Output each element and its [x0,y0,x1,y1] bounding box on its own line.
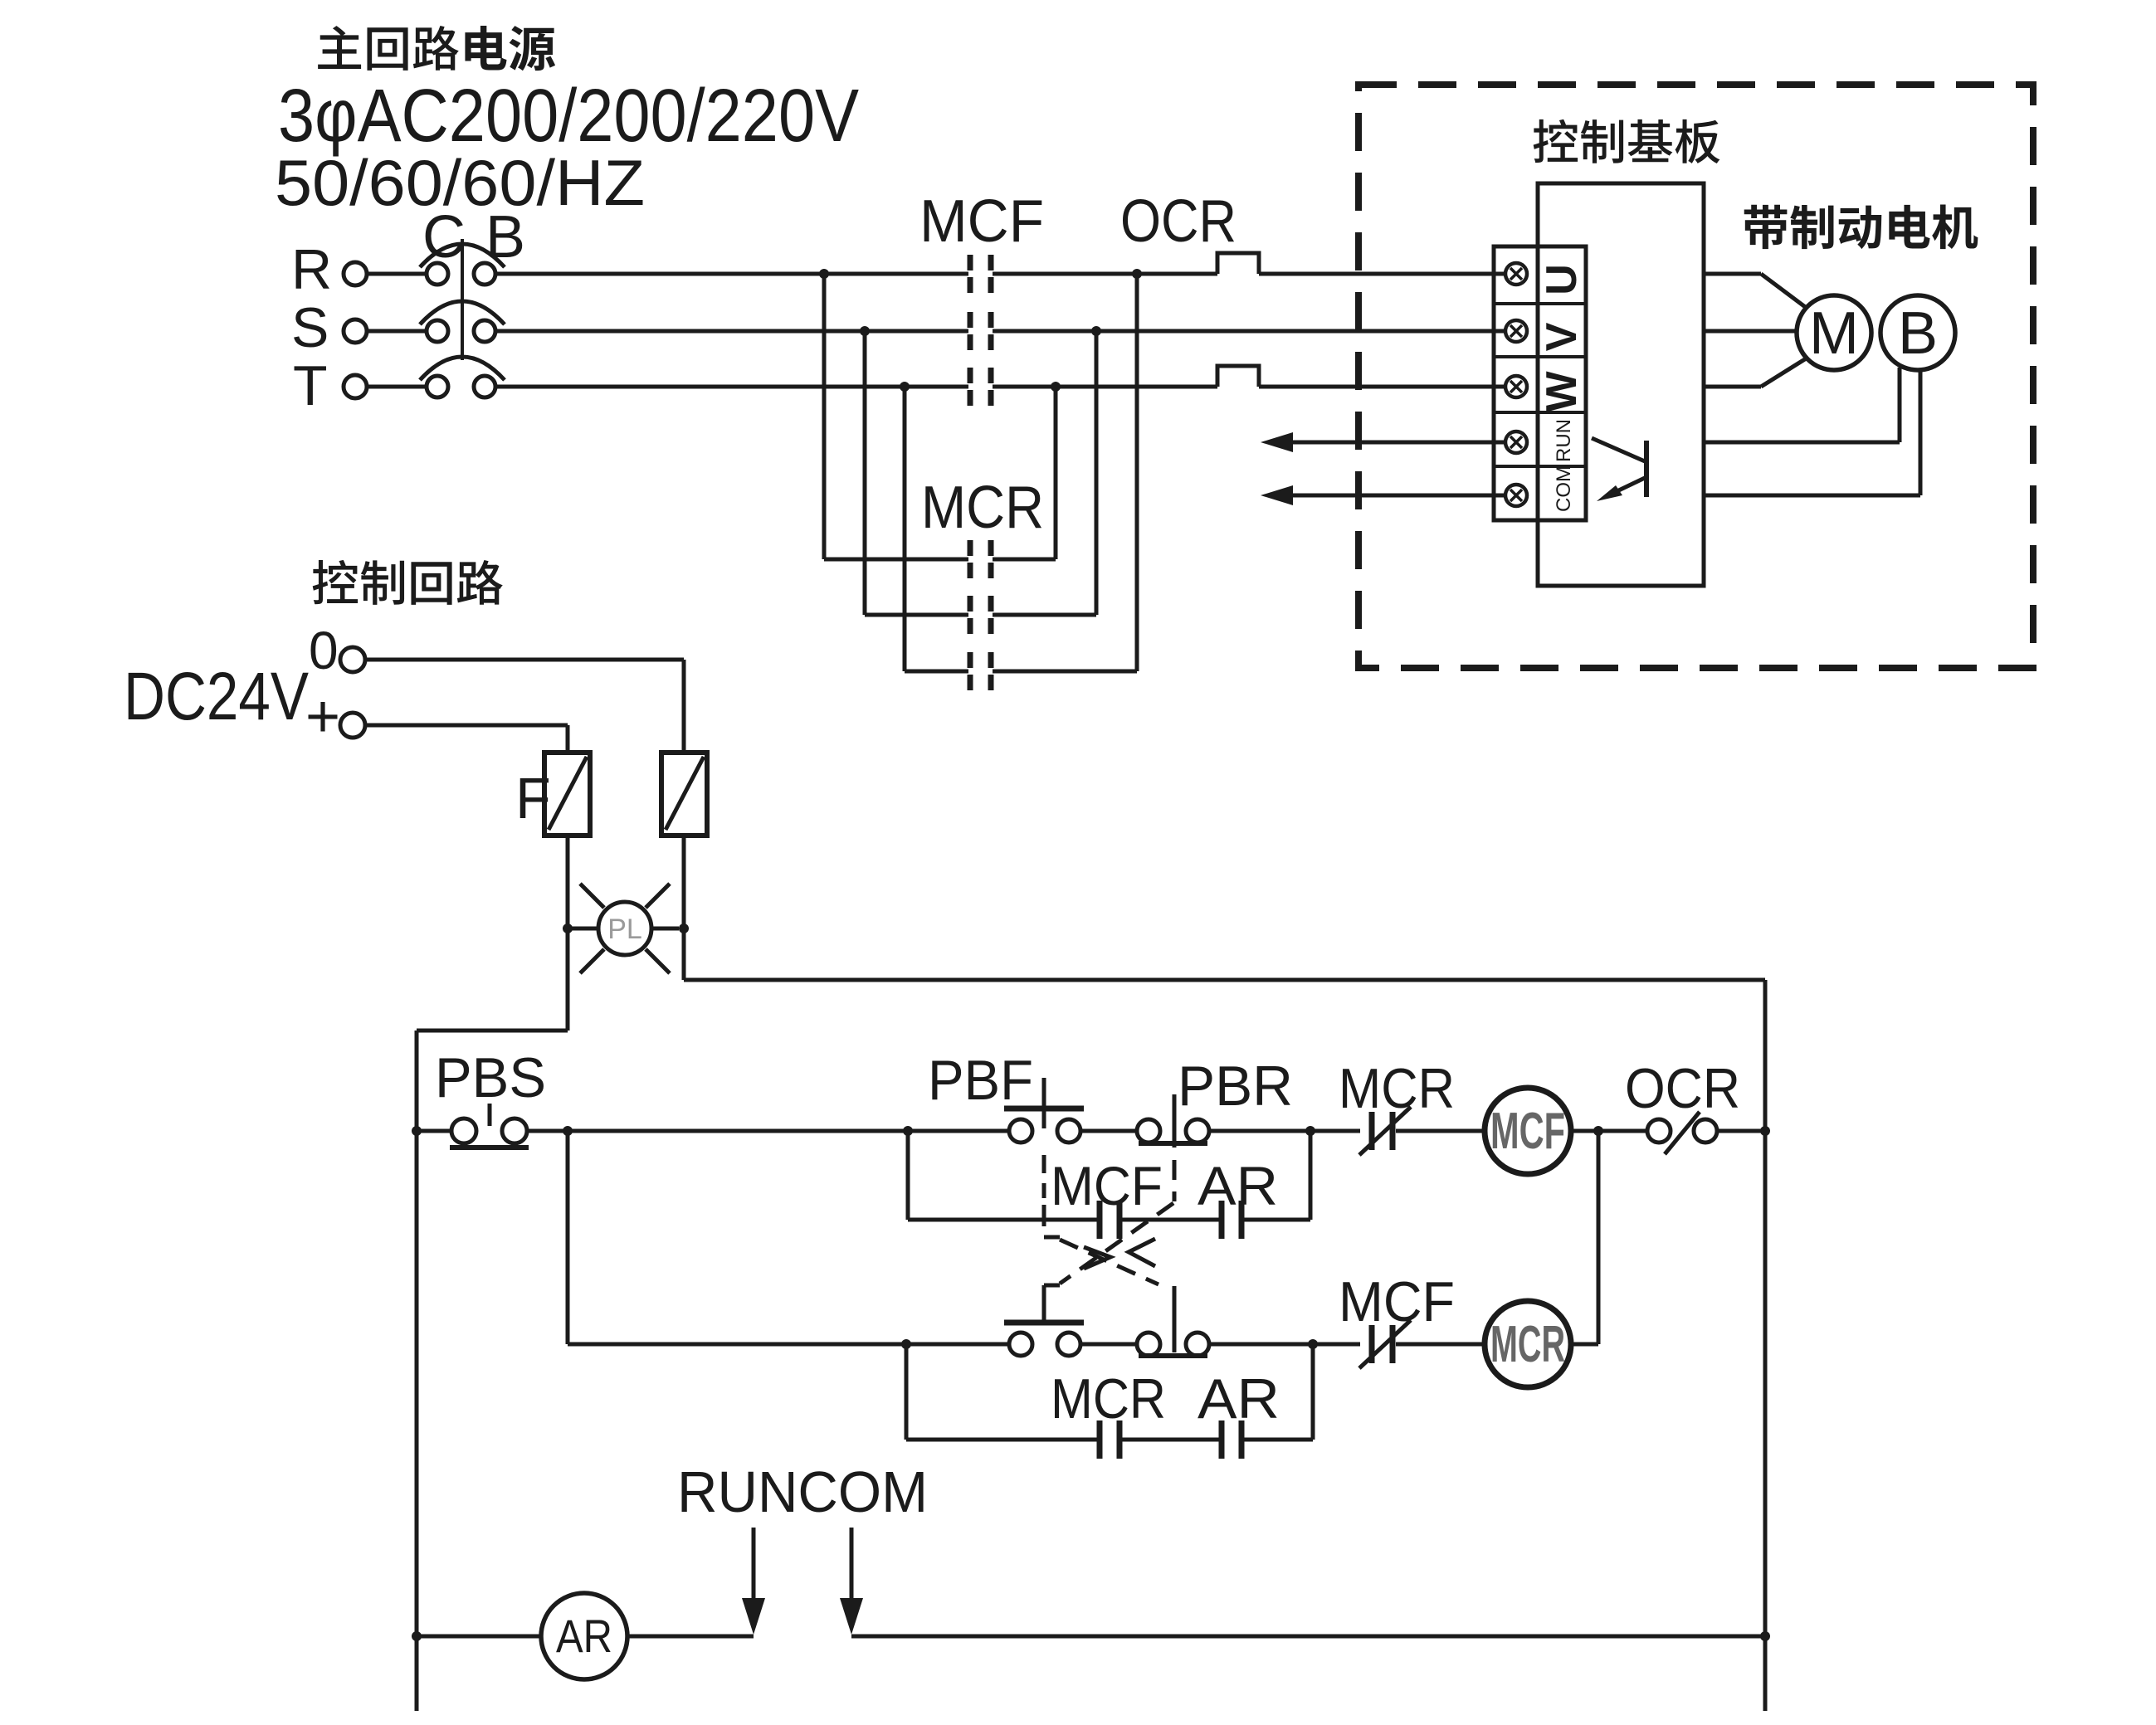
wire 0 to right fuse [365,660,684,753]
wire brake 1 [1704,368,1900,442]
terminal 0 [340,647,365,672]
wire bypass2 rise [1311,1344,1315,1440]
wire MCR rung 2 [865,613,1096,617]
wire COM signal [1292,494,1505,498]
pin label U [1538,264,1586,295]
svg-text:PL: PL [607,914,642,945]
svg-text:MCR: MCR [1339,1057,1455,1120]
wire PL to left rail [417,928,568,1031]
label F (fuse) [515,766,551,831]
wire top feed line [684,978,1765,982]
wire MCR rung 3 [905,670,1137,674]
label AR (contact rung1b) [1198,1155,1278,1216]
wire bypass1 segment C [1244,1218,1310,1222]
label main-circuit power title 主回路电源 [318,26,555,71]
wire rung1 segment E [1571,1129,1647,1133]
wire rung1 segment B [1080,1129,1137,1133]
label S phase [291,296,329,359]
pushbutton PBF (NO) [1004,1078,1084,1198]
contactor MCF main contact S [970,312,991,350]
junction left rail rung1 [412,1126,422,1136]
junction S-MCR left [860,326,870,336]
wire R line OCR to terminal U [1259,272,1505,276]
svg-text:MCF: MCF [1490,1103,1565,1160]
svg-text:T: T [293,354,328,417]
brake B [1880,295,1955,370]
circuit breaker CB linkage [461,239,464,360]
junction R-MCR left [819,269,829,279]
wire bypass1 segment A [908,1218,1097,1222]
coil AR [541,1593,627,1679]
wire RUN signal [1292,441,1505,445]
label OCR (NC contact) [1625,1057,1740,1120]
junction rung1 bypass right [1305,1126,1315,1136]
wire rung2 segment D [1396,1342,1485,1347]
label control board 控制基板 [1534,119,1720,163]
wire T line MCF to OCR [993,385,1217,389]
contactor MCF main contact T [970,368,991,406]
interlock link PBF descending [1044,1205,1158,1284]
contact MCF NC rung2 [1359,1320,1411,1368]
terminal + [340,713,365,738]
svg-text:OCR: OCR [1625,1057,1740,1120]
pilot lamp PL [572,884,679,973]
svg-text:MCF: MCF [1339,1270,1455,1333]
label motor with brake 带制动电机 [1744,205,1978,250]
junction rung1 to bypass [903,1126,913,1136]
wire T line CB to MCF [495,385,968,389]
wire bypass1 segment B [1122,1218,1219,1222]
terminal screw U [1505,263,1527,285]
svg-text:MCR: MCR [1051,1367,1166,1430]
wire V to motor [1704,329,1797,334]
junction T-MCR right [1051,382,1061,392]
junction T-MCR left [900,382,910,392]
junction rung2 to bypass [901,1339,911,1349]
wire rung1 segment D [1396,1129,1485,1133]
svg-text:3φAC200/200/220V: 3φAC200/200/220V [278,75,859,158]
svg-text:OCR: OCR [1120,188,1237,255]
label R phase [291,238,332,301]
svg-text:MCR: MCR [1490,1316,1565,1373]
circuit breaker CB pole S [420,301,505,342]
label DC24V [124,659,309,734]
svg-text:S: S [291,296,329,359]
label AR (contact rung2b) [1198,1367,1280,1430]
wire rung2 segment A [568,1342,1009,1347]
label 3phase AC200/200/220V [278,75,859,158]
terminal S [344,319,367,343]
terminal block dividers [1494,304,1586,466]
svg-text:+: + [305,684,340,750]
label MCR (reversing contact) [921,475,1044,541]
pin label RUN [1553,419,1575,462]
wire MCR drop S [863,331,867,615]
wire R terminal to CB [367,272,427,276]
wire rung2 drop [566,1131,570,1344]
pushbutton PBF-linked (rung2) [1004,1299,1084,1356]
svg-text:MCR: MCR [921,475,1044,541]
wire bottom segment C [851,1635,1765,1639]
svg-text:MCF: MCF [1051,1155,1163,1216]
wire W to motor [1704,358,1807,387]
svg-text:R: R [291,238,332,301]
contact MCR NC rung1 [1359,1107,1411,1155]
wire MCR drop R [822,274,827,559]
contactor MCR main contact 3 [970,652,991,690]
arrow COM down [840,1528,863,1635]
dashed enclosure (motor unit) [1358,85,2033,668]
svg-text:COM: COM [1553,465,1575,512]
contact AR NO rung1b [1222,1201,1241,1239]
pin label COM [1553,465,1575,512]
wire T terminal to CB [367,385,427,389]
wire bottom segment A [417,1635,541,1639]
label MCR (NC contact rung1) [1339,1057,1455,1120]
wire MCR rise to R [1135,274,1139,671]
interlock chevron right [1084,1247,1110,1269]
svg-text:RUNCOM: RUNCOM [677,1459,928,1524]
junction rung1 to rung2 [563,1126,573,1136]
pushbutton PBS [450,1104,529,1148]
junction PL right [679,923,689,933]
pin label W [1538,371,1586,412]
label MCF (NC contact rung2) [1339,1270,1455,1333]
pin label V [1538,322,1586,351]
contact MCF NO [1100,1201,1119,1239]
wire rung1 segment C [1209,1129,1360,1133]
wire bypass2 drop [905,1344,909,1440]
contactor MCR main contact 2 [970,596,991,634]
terminal screw V [1505,320,1527,342]
interlock chevron left [1129,1239,1155,1266]
pushbutton PBR (NC) [1137,1094,1209,1201]
svg-text:0: 0 [309,621,339,680]
junction coils common [1593,1126,1603,1136]
label MCR (self hold) [1051,1367,1166,1430]
contact AR NO rung2b [1222,1420,1241,1459]
fuse F right [661,753,707,836]
contactor MCF main contact R [970,255,991,293]
label PBR [1178,1055,1293,1118]
svg-text:W: W [1538,371,1586,412]
contact MCR NO [1100,1420,1119,1459]
label control circuit 控制回路 [313,560,503,605]
coil MCF [1485,1088,1571,1174]
fuse F left [544,753,590,836]
brake driver symbol [1592,438,1646,501]
label MCF (self hold) [1051,1155,1163,1216]
junction rung2 bypass right [1308,1339,1318,1349]
contactor MCR main contact 1 [970,540,991,578]
svg-text:AR: AR [556,1610,612,1662]
wire bypass2 segment C [1244,1438,1313,1442]
wire bypass2 segment B [1122,1438,1219,1442]
label RUNCOM [677,1459,928,1524]
wire right fuse to PL [682,836,686,928]
wire bottom segment B [627,1635,754,1639]
wire right rail [1763,980,1768,1711]
circuit breaker CB pole R [420,244,505,285]
svg-text:DC24V: DC24V [124,659,309,734]
wire MCR rise to T [1054,387,1058,559]
circuit breaker CB pole T [420,357,505,397]
wire + to left fuse [365,725,568,753]
label B (breaker) [485,204,525,270]
contact OCR NC [1647,1112,1717,1154]
interlock link PBR ascending [1044,1203,1173,1301]
coil MCR [1485,1301,1571,1387]
junction R-MCR right [1132,269,1142,279]
wire left rail [415,1031,419,1711]
label MCF (main contact) [919,188,1044,255]
svg-text:V: V [1538,322,1586,351]
svg-text:PBR: PBR [1178,1055,1293,1118]
wire U to motor [1704,274,1807,309]
svg-text:PBF: PBF [928,1049,1033,1112]
wire MCR rise to S [1095,331,1099,615]
wire brake 2 [1704,371,1920,495]
label 0 terminal [309,621,339,680]
wire R line CB to MCF [495,272,968,276]
wire PL to feed line [682,928,686,980]
svg-text:AR: AR [1198,1155,1278,1216]
label OCR (overcurrent relay) [1120,188,1237,255]
wire bypass1 drop [906,1131,910,1220]
svg-text:RUN: RUN [1553,419,1575,462]
label PBS [435,1046,546,1109]
junction PL left [563,923,573,933]
wire S line CB to MCF [495,329,968,334]
wire left fuse to PL [566,836,570,928]
label T phase [293,354,328,417]
wire rung1 segment F [1717,1129,1765,1133]
label C (breaker) [422,204,466,270]
junction right rail rung1 [1760,1126,1770,1136]
terminal screw W [1505,376,1527,397]
wire rung1 segment A [527,1129,1009,1133]
junction right rail bottom [1760,1631,1770,1641]
svg-text:PBS: PBS [435,1046,546,1109]
terminal T [344,375,367,398]
svg-text:B: B [485,204,525,270]
wire S terminal to CB [367,329,427,334]
wire R line MCF to OCR [993,272,1217,276]
wire S line MCF to terminal V [993,329,1505,334]
terminal block outline [1494,246,1586,520]
wire rung2 segment C [1209,1342,1360,1347]
junction left rail bottom [412,1631,422,1641]
wire rung2 segment B [1080,1342,1137,1347]
label PBF [928,1049,1033,1112]
control board rectangle [1538,183,1704,586]
wire PBS to rail [417,1129,451,1133]
terminal screw COM [1505,485,1527,506]
label + terminal [305,684,340,750]
wire bypass2 segment A [906,1438,1097,1442]
arrowhead RUN [1261,432,1293,452]
motor M [1797,295,1871,370]
pushbutton PBR-linked (rung2) [1137,1286,1209,1356]
terminal R [344,262,367,285]
arrow RUN down [742,1528,765,1635]
svg-text:B: B [1898,300,1938,367]
wire MCR drop T [903,387,907,671]
svg-text:U: U [1538,264,1586,295]
label 50/60/60/HZ [275,146,645,219]
wire rung2 segment E [1571,1342,1598,1347]
junction S-MCR right [1091,326,1101,336]
wire bypass1 rise [1309,1131,1313,1220]
wire MCR rung 1 [824,558,1056,562]
svg-text:M: M [1809,300,1859,367]
svg-text:MCF: MCF [919,188,1044,255]
thermal element OCR on T line [1217,366,1259,387]
wire T line OCR to terminal W [1259,385,1505,389]
wire coils common drop [1597,1131,1601,1344]
terminal screw RUN [1505,431,1527,453]
thermal element OCR on R line [1217,253,1259,274]
arrowhead COM [1261,485,1293,505]
